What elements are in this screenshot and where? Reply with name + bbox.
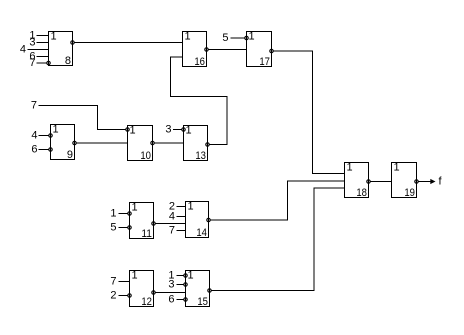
svg-text:6: 6 xyxy=(168,294,174,306)
svg-text:1: 1 xyxy=(188,201,194,213)
svg-text:10: 10 xyxy=(140,150,151,162)
svg-text:4: 4 xyxy=(31,130,37,142)
svg-text:8: 8 xyxy=(65,55,71,67)
svg-text:1: 1 xyxy=(249,31,255,43)
svg-text:16: 16 xyxy=(194,56,205,68)
svg-text:2: 2 xyxy=(110,290,116,302)
svg-text:6: 6 xyxy=(31,144,37,156)
svg-text:13: 13 xyxy=(195,150,206,162)
svg-text:1: 1 xyxy=(185,31,191,43)
svg-text:9: 9 xyxy=(67,149,73,161)
svg-text:7: 7 xyxy=(29,57,35,69)
svg-text:1: 1 xyxy=(132,270,138,282)
svg-text:3: 3 xyxy=(165,124,171,136)
svg-text:12: 12 xyxy=(141,296,152,308)
svg-text:1: 1 xyxy=(110,208,116,220)
svg-text:1: 1 xyxy=(347,162,353,174)
svg-text:1: 1 xyxy=(132,202,138,214)
svg-text:1: 1 xyxy=(51,31,57,43)
svg-text:17: 17 xyxy=(259,56,270,68)
svg-text:7: 7 xyxy=(31,100,37,112)
svg-text:5: 5 xyxy=(110,222,116,234)
svg-text:3: 3 xyxy=(168,279,174,291)
svg-text:5: 5 xyxy=(222,32,228,44)
svg-text:1: 1 xyxy=(130,125,136,137)
svg-text:4: 4 xyxy=(20,44,26,56)
svg-text:3: 3 xyxy=(29,37,35,49)
svg-text:7: 7 xyxy=(169,225,175,237)
svg-text:1: 1 xyxy=(188,270,194,282)
svg-text:4: 4 xyxy=(169,211,175,223)
svg-text:1: 1 xyxy=(53,124,59,136)
svg-text:1: 1 xyxy=(394,162,400,174)
svg-text:11: 11 xyxy=(141,228,152,240)
svg-text:15: 15 xyxy=(197,296,208,308)
svg-text:1: 1 xyxy=(186,125,192,137)
svg-text:14: 14 xyxy=(196,227,207,239)
svg-text:18: 18 xyxy=(356,187,367,199)
svg-text:7: 7 xyxy=(110,276,116,288)
svg-text:19: 19 xyxy=(404,187,415,199)
